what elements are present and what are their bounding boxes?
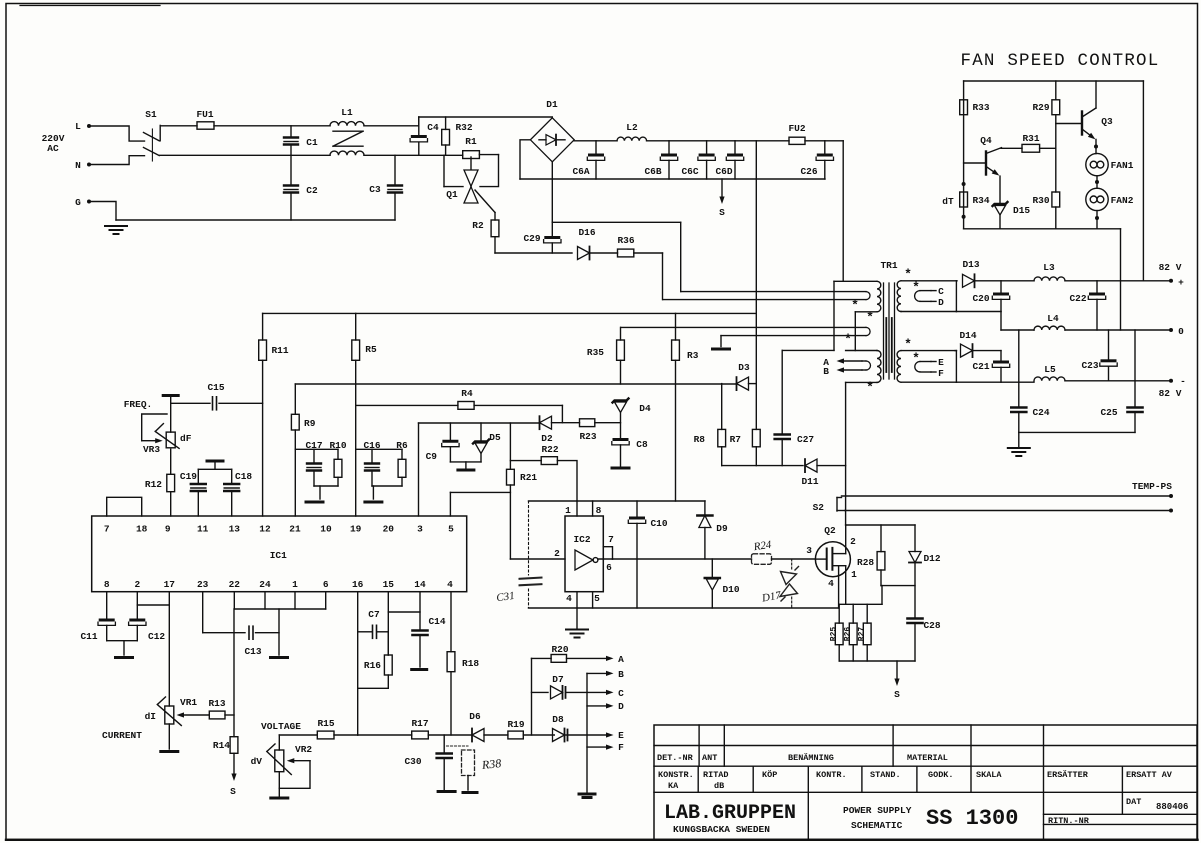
wire R2 to D16 xyxy=(495,252,572,254)
svg-text:D7: D7 xyxy=(552,674,564,685)
svg-text:ERSATT AV: ERSATT AV xyxy=(1126,770,1173,780)
snubber bottom wire xyxy=(722,465,803,467)
resistor R8 xyxy=(718,429,726,446)
pin2 pin17 jog xyxy=(137,604,169,606)
capacitor C1 xyxy=(290,126,292,137)
svg-text:R12: R12 xyxy=(145,479,162,490)
diode D16 xyxy=(589,247,591,260)
S2 switch xyxy=(836,498,838,512)
svg-text:VR3: VR3 xyxy=(143,444,160,455)
rail R11 R5 to DC+ xyxy=(263,312,757,314)
arrow B xyxy=(587,672,606,674)
svg-text:21: 21 xyxy=(289,524,301,535)
resistor R10 xyxy=(337,449,339,459)
resistor R24 handwritten xyxy=(752,554,772,565)
capacitor C20 xyxy=(1000,281,1002,293)
diode D3 xyxy=(736,377,738,390)
svg-text:*: * xyxy=(912,351,920,366)
wire bridge bottom to C29 xyxy=(551,162,553,223)
diac D17 handwritten xyxy=(791,559,793,571)
TR1 core xyxy=(883,283,885,379)
svg-text:E: E xyxy=(618,730,624,741)
svg-text:D14: D14 xyxy=(959,330,976,341)
TR1 primary lower winding xyxy=(846,350,877,352)
resistor R22 xyxy=(510,460,541,462)
svg-text:SKALA: SKALA xyxy=(976,770,1002,780)
ground symbol AC input xyxy=(105,225,127,227)
svg-text:4: 4 xyxy=(447,579,453,590)
arrow S under C6D xyxy=(721,179,723,197)
svg-text:C27: C27 xyxy=(797,434,814,445)
TR1 secondary lower winding xyxy=(897,351,901,383)
svg-text:L1: L1 xyxy=(341,107,353,118)
svg-text:SS 1300: SS 1300 xyxy=(926,806,1018,831)
svg-text:D2: D2 xyxy=(541,433,553,444)
wire R19 junction xyxy=(523,734,554,736)
svg-text:R21: R21 xyxy=(520,472,537,483)
capacitor C15 xyxy=(212,397,214,410)
svg-text:FAN1: FAN1 xyxy=(1111,160,1134,171)
svg-text:C: C xyxy=(938,286,944,297)
wire pin22 chain xyxy=(233,609,235,737)
svg-text:RITN.-NR: RITN.-NR xyxy=(1048,816,1090,826)
svg-text:dI: dI xyxy=(145,711,156,722)
svg-text:C: C xyxy=(618,688,624,699)
svg-text:G: G xyxy=(75,197,81,208)
svg-text:FU2: FU2 xyxy=(788,123,805,134)
TR1 primary upper winding xyxy=(834,280,877,282)
svg-text:R38: R38 xyxy=(480,756,502,772)
wire R15 to VR2 xyxy=(278,735,280,750)
svg-text:R16: R16 xyxy=(364,660,381,671)
IC1 pin7 pin18 bracket xyxy=(107,497,142,516)
IC2 bottom rail xyxy=(529,607,839,609)
ground bar middle hairpin xyxy=(720,336,722,347)
VR3 wiper loop xyxy=(142,440,156,442)
resistor R21 xyxy=(509,423,511,469)
IC2 inverter symbol xyxy=(575,550,593,570)
transistor Q4 xyxy=(985,152,987,175)
svg-text:R7: R7 xyxy=(730,434,742,445)
terminal N xyxy=(87,163,91,167)
capacitor C12 xyxy=(136,592,138,619)
resistor R13 xyxy=(209,711,225,719)
terminal L xyxy=(87,124,91,128)
svg-text:R35: R35 xyxy=(587,347,604,358)
svg-text:C3: C3 xyxy=(369,184,381,195)
svg-text:D15: D15 xyxy=(1013,205,1030,216)
wire y735 R17 xyxy=(358,734,412,736)
capacitor C31 handwritten xyxy=(520,578,542,579)
capacitor C3 xyxy=(394,155,396,184)
fan box left rail xyxy=(963,81,965,229)
svg-text:FAN SPEED CONTROL: FAN SPEED CONTROL xyxy=(961,51,1160,71)
svg-text:DET.-NR: DET.-NR xyxy=(657,753,694,763)
capacitor C17 xyxy=(313,449,315,462)
resistor R28 xyxy=(880,525,882,552)
pin16 chain xyxy=(357,592,359,735)
svg-text:4: 4 xyxy=(828,578,834,589)
fan FAN1 xyxy=(1086,153,1108,175)
svg-text:C6A: C6A xyxy=(572,166,589,177)
resistor R27 xyxy=(866,604,868,623)
svg-text:C18: C18 xyxy=(235,471,252,482)
svg-text:C24: C24 xyxy=(1032,407,1049,418)
capacitor C8 xyxy=(614,438,627,441)
TR1 secondary upper winding xyxy=(897,281,901,312)
svg-text:D6: D6 xyxy=(469,711,481,722)
svg-text:F: F xyxy=(938,368,944,379)
wire bridge+ to L2 xyxy=(574,140,617,142)
svg-text:C26: C26 xyxy=(800,166,817,177)
svg-text:C12: C12 xyxy=(148,631,165,642)
svg-text:C20: C20 xyxy=(972,293,989,304)
svg-text:R17: R17 xyxy=(411,718,428,729)
capacitor C29 xyxy=(551,222,553,236)
wire D return rail xyxy=(956,311,1001,313)
svg-text:D4: D4 xyxy=(639,403,651,414)
IC2 pin 4 xyxy=(576,592,578,608)
svg-text:1: 1 xyxy=(565,505,571,516)
terminal 82V- xyxy=(1169,379,1173,383)
svg-text:3: 3 xyxy=(806,545,812,556)
svg-text:0: 0 xyxy=(1178,326,1184,337)
svg-text:*: * xyxy=(866,380,874,395)
gate wire Q1 to R2 xyxy=(475,190,495,213)
bottom rail C24 C25 xyxy=(1019,431,1135,433)
wire R32 to Q1 left xyxy=(443,155,445,186)
wire D3 to R7 vertical xyxy=(749,383,757,385)
svg-text:L4: L4 xyxy=(1047,313,1059,324)
svg-text:*: * xyxy=(851,298,859,313)
svg-text:R19: R19 xyxy=(507,719,524,730)
svg-text:82 V: 82 V xyxy=(1159,388,1182,399)
capacitor C14 xyxy=(419,592,421,630)
resistor R20 xyxy=(532,657,552,659)
ground symbol secondary xyxy=(1018,432,1020,447)
svg-text:R13: R13 xyxy=(208,698,225,709)
svg-text:S2: S2 xyxy=(813,502,825,513)
wire R28 bottom junction xyxy=(881,585,915,587)
svg-text:Q4: Q4 xyxy=(980,135,992,146)
svg-text:IC1: IC1 xyxy=(270,550,287,561)
diode D13 xyxy=(955,280,958,282)
svg-text:R11: R11 xyxy=(271,345,288,356)
svg-text:D10: D10 xyxy=(722,584,739,595)
resistor R4 xyxy=(356,404,458,406)
svg-text:AC: AC xyxy=(47,143,59,154)
svg-text:R28: R28 xyxy=(857,557,874,568)
wire R23 to D4 node xyxy=(595,422,621,424)
arrow C xyxy=(566,691,606,693)
svg-text:LAB.GRUPPEN: LAB.GRUPPEN xyxy=(664,802,796,825)
svg-text:2: 2 xyxy=(554,548,560,559)
wire R4 to D2 node xyxy=(474,404,562,406)
svg-text:D5: D5 xyxy=(489,432,501,443)
svg-text:R23: R23 xyxy=(579,431,596,442)
svg-text:KONSTR.: KONSTR. xyxy=(658,770,694,780)
svg-text:RITAD: RITAD xyxy=(703,770,729,780)
svg-text:C30: C30 xyxy=(404,756,421,767)
arrow D xyxy=(587,705,606,707)
wire C15 to R11 line xyxy=(219,402,263,404)
C30 ground bar xyxy=(438,790,455,793)
svg-text:BENÄMNING: BENÄMNING xyxy=(788,752,834,763)
TR1 secondary upper hairpin C D xyxy=(920,290,931,292)
capacitor C23 xyxy=(1108,330,1110,360)
svg-text:dB: dB xyxy=(714,781,724,791)
svg-text:C23: C23 xyxy=(1081,360,1098,371)
svg-text:L5: L5 xyxy=(1044,364,1056,375)
IC2 dotted box left with C31 xyxy=(528,501,530,575)
svg-text:S: S xyxy=(230,786,236,797)
svg-text:S1: S1 xyxy=(145,109,157,120)
terminal 0 xyxy=(1169,328,1173,332)
svg-text:R14: R14 xyxy=(213,740,230,751)
svg-text:MATERIAL: MATERIAL xyxy=(907,753,948,763)
IC2 top rail xyxy=(529,500,706,502)
ground IC2 pin4 xyxy=(576,608,578,628)
IC2 pin 6 output xyxy=(598,558,613,560)
output wire IC2 to Q2 gate xyxy=(613,558,752,560)
svg-text:L: L xyxy=(75,121,81,132)
diode D10 xyxy=(711,559,713,578)
resistor R32 xyxy=(445,117,447,129)
svg-text:3: 3 xyxy=(417,524,423,535)
svg-text:dF: dF xyxy=(180,433,192,444)
svg-text:C9: C9 xyxy=(426,451,438,462)
capacitor C18 xyxy=(231,469,233,483)
fuse FU1 xyxy=(197,122,214,129)
wire R15 to pin16 chain xyxy=(334,734,358,736)
svg-text:6: 6 xyxy=(323,579,329,590)
svg-text:C6D: C6D xyxy=(715,166,732,177)
pins 22 24 1 6 bus xyxy=(233,592,235,609)
TEMP-PS wires xyxy=(842,495,1172,497)
trimmer top bar xyxy=(163,394,178,397)
svg-text:C14: C14 xyxy=(428,616,445,627)
wire L1 to C4 node top xyxy=(364,125,419,127)
capacitor C6B xyxy=(668,141,670,154)
svg-text:ANT: ANT xyxy=(702,753,717,763)
svg-text:dT: dT xyxy=(942,196,954,207)
resistor R16 xyxy=(387,632,389,655)
TR1 primary feed vertical xyxy=(842,141,844,281)
IC2 pin 2 wire xyxy=(510,558,565,560)
svg-text:FREQ.: FREQ. xyxy=(124,399,153,410)
resistor R25 xyxy=(838,604,840,623)
svg-text:R31: R31 xyxy=(1022,133,1039,144)
svg-text:22: 22 xyxy=(229,579,241,590)
svg-text:15: 15 xyxy=(383,579,395,590)
TR1 A B hairpin xyxy=(844,360,862,362)
pin4 chain to R18 xyxy=(450,592,452,652)
svg-text:C1: C1 xyxy=(306,137,318,148)
svg-text:880406: 880406 xyxy=(1156,802,1188,812)
capacitor C30 xyxy=(443,735,445,753)
svg-text:E: E xyxy=(938,357,944,368)
dot left rail above R34 xyxy=(962,182,966,186)
wire C13 right xyxy=(256,632,280,634)
svg-text:R36: R36 xyxy=(617,235,634,246)
fuse FU2 xyxy=(789,137,805,144)
svg-text:9: 9 xyxy=(165,524,171,535)
top rail to bridge xyxy=(418,117,420,126)
capacitor C15 wire xyxy=(171,402,210,404)
zener D4 xyxy=(613,399,629,403)
C19 C18 top bar xyxy=(198,468,231,470)
capacitor C13 xyxy=(248,626,250,639)
svg-text:2: 2 xyxy=(850,536,856,547)
wire R36 to hairpin xyxy=(634,252,663,254)
svg-text:C25: C25 xyxy=(1100,407,1117,418)
wire pin17 to VR1 xyxy=(168,592,170,706)
capacitor C9 xyxy=(449,423,451,440)
source resistor network rail xyxy=(839,603,882,605)
svg-text:R32: R32 xyxy=(455,122,472,133)
terminal G xyxy=(87,200,91,204)
svg-text:C15: C15 xyxy=(207,382,224,393)
svg-text:18: 18 xyxy=(136,524,148,535)
svg-text:D1: D1 xyxy=(546,99,558,110)
svg-text:R33: R33 xyxy=(972,102,989,113)
svg-text:R4: R4 xyxy=(461,388,473,399)
svg-text:KUNGSBACKA SWEDEN: KUNGSBACKA SWEDEN xyxy=(673,824,770,835)
resistor R5 xyxy=(355,313,357,340)
resistor R15 xyxy=(279,734,317,736)
svg-text:D11: D11 xyxy=(801,476,818,487)
svg-text:R5: R5 xyxy=(365,344,377,355)
svg-text:C29: C29 xyxy=(523,233,540,244)
svg-text:KÖP: KÖP xyxy=(762,769,777,780)
svg-text:STAND.: STAND. xyxy=(870,770,901,780)
svg-text:B: B xyxy=(823,366,829,377)
svg-text:C22: C22 xyxy=(1069,293,1086,304)
plus 82V rail xyxy=(1065,280,1171,282)
title block frame xyxy=(654,725,1197,840)
svg-text:R30: R30 xyxy=(1032,195,1049,206)
svg-text:S: S xyxy=(894,689,900,700)
svg-text:R1: R1 xyxy=(465,136,477,147)
svg-text:C7: C7 xyxy=(368,609,380,620)
wire R17 to D6 xyxy=(428,734,471,736)
svg-text:14: 14 xyxy=(414,579,426,590)
svg-text:C21: C21 xyxy=(972,361,989,372)
VR2 wiper loop xyxy=(294,760,310,762)
rail R9 D3 xyxy=(295,383,736,385)
wire C27 to TR1 left edge xyxy=(782,349,834,351)
svg-text:CURRENT: CURRENT xyxy=(102,730,142,741)
arrow A xyxy=(567,657,607,659)
wire R21 bottom net xyxy=(509,485,511,559)
arrow F xyxy=(587,746,606,748)
svg-text:L2: L2 xyxy=(626,122,638,133)
svg-text:1: 1 xyxy=(292,579,298,590)
resistor R18 xyxy=(447,652,455,672)
capacitor C11 xyxy=(106,592,108,619)
terminal 82V+ xyxy=(1169,279,1173,283)
inductor L4 xyxy=(1001,329,1034,331)
svg-text:R9: R9 xyxy=(304,418,316,429)
svg-text:10: 10 xyxy=(320,524,332,535)
resistor R26 xyxy=(852,604,854,623)
svg-text:D9: D9 xyxy=(716,523,728,534)
svg-text:C6C: C6C xyxy=(681,166,698,177)
inductor L5 xyxy=(1034,377,1065,381)
svg-text:L3: L3 xyxy=(1043,262,1055,273)
wire L2 to FU2 xyxy=(647,140,789,142)
svg-text:1: 1 xyxy=(851,569,857,580)
svg-text:11: 11 xyxy=(197,524,209,535)
wire pin23 to C13 xyxy=(202,592,204,633)
capacitor C6A xyxy=(595,141,597,154)
svg-text:Q1: Q1 xyxy=(446,189,458,200)
svg-text:5: 5 xyxy=(594,593,600,604)
svg-text:D: D xyxy=(618,701,624,712)
capacitor C19 xyxy=(197,469,199,483)
resistor R1 xyxy=(463,151,480,159)
dot below FAN2 xyxy=(1095,216,1099,220)
capacitor C2 xyxy=(290,155,292,184)
branch to R20 xyxy=(531,658,533,735)
svg-text:R22: R22 xyxy=(541,444,558,455)
resistor R11 xyxy=(262,313,264,340)
svg-text:B: B xyxy=(618,669,624,680)
C9 D5 ground xyxy=(450,461,481,463)
source network bottom rail xyxy=(839,660,915,662)
resistor R9 xyxy=(294,384,296,414)
TR1 primary bottom to Q2 drain line xyxy=(845,382,847,525)
capacitor C28 xyxy=(908,617,923,620)
resistor R23 xyxy=(580,419,595,427)
svg-text:19: 19 xyxy=(350,524,362,535)
C14 ground bar xyxy=(412,668,427,671)
svg-text:C11: C11 xyxy=(80,631,97,642)
resistor R38 handwritten xyxy=(447,745,469,747)
long vertical DC+ to D3 node xyxy=(755,141,757,384)
wire D16 to R36 xyxy=(591,252,618,254)
resistor R19 xyxy=(508,731,523,739)
wire fan bottom to 0 rail xyxy=(1120,229,1122,330)
capacitor C26 xyxy=(824,141,826,154)
svg-text:C13: C13 xyxy=(244,646,261,657)
svg-text:12: 12 xyxy=(259,524,271,535)
svg-text:D8: D8 xyxy=(552,714,564,725)
resistor R30 xyxy=(1052,192,1060,207)
resistor R34 xyxy=(960,192,968,207)
IC2 pin 8 xyxy=(592,501,594,516)
ground wire G xyxy=(89,202,116,221)
resistor R31 xyxy=(1001,147,1022,149)
C16 R6 network xyxy=(356,448,402,450)
capacitor C27 xyxy=(781,350,783,433)
svg-text:D13: D13 xyxy=(962,259,979,270)
fan box top rail xyxy=(964,80,1144,82)
svg-text:DAT: DAT xyxy=(1126,797,1141,807)
svg-text:TR1: TR1 xyxy=(880,260,897,271)
bridge rectifier D1 xyxy=(530,118,574,162)
TR1 secondary lower hairpin E F xyxy=(920,361,931,363)
wire R8 tee xyxy=(721,384,723,430)
svg-text:24: 24 xyxy=(259,579,271,590)
TR1 primary link xyxy=(854,312,856,351)
svg-text:-: - xyxy=(1180,376,1186,387)
svg-text:C10: C10 xyxy=(650,518,667,529)
svg-text:C31: C31 xyxy=(496,590,516,604)
svg-text:C8: C8 xyxy=(636,439,648,450)
C11 C12 ground xyxy=(107,640,138,642)
dot left rail below R34 xyxy=(962,215,966,219)
